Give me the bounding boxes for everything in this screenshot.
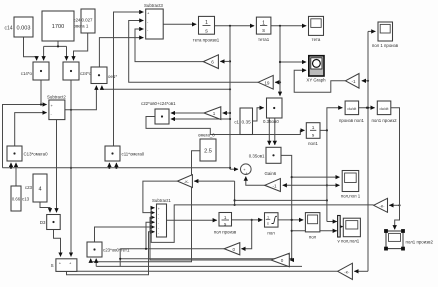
round sum block bbox=[241, 164, 252, 175]
wire const 2.5 omega_0 down to product c23 in1 bbox=[91, 151, 200, 262]
wire integrator pol1 out elbow up to du/dt1 bbox=[320, 108, 342, 132]
wire du/dt2 out down to selected scope bbox=[391, 108, 400, 230]
svg-text:0.027: 0.027 bbox=[82, 18, 94, 23]
wire gain 6 out feedback to Subtract3 in3 bbox=[135, 29, 203, 62]
wire c13 const to product C13*omega0 in2 bbox=[15, 163, 17, 186]
svg-text:c13: c13 bbox=[22, 197, 30, 202]
wire product D3 out to sum S in1 bbox=[54, 230, 61, 257]
wire product c23 out to Subtract1 in5 bbox=[95, 227, 155, 242]
vertical teta1 rail x=280 to product 0.35om0 top bbox=[279, 26, 281, 96]
wire gain 0 pol feedback to Subtract1 in3 bbox=[150, 217, 271, 260]
gain -K- left bbox=[177, 175, 192, 188]
wire gain 1 out to product c22 in1 bbox=[171, 112, 204, 114]
svg-text:0.003: 0.003 bbox=[17, 26, 31, 32]
wire Subtract2 out to product oe1 in1 bbox=[65, 86, 97, 111]
svg-text:c14: c14 bbox=[5, 26, 13, 32]
derivative du/dt pol1 proiz2 bbox=[371, 101, 397, 123]
wire product oe1 out to Subtract3 in4 bbox=[99, 38, 143, 67]
wire rail to gain 1 input bbox=[223, 112, 230, 114]
svg-text:19: 19 bbox=[265, 80, 270, 85]
derivative du/dt proizv pol1 bbox=[339, 101, 365, 123]
svg-text:0: 0 bbox=[281, 258, 284, 263]
svg-text:c11*омега0: c11*омега0 bbox=[122, 152, 145, 157]
svg-text:D3: D3 bbox=[40, 220, 46, 225]
wire product C13*omega0 to Subtract2 in2 bbox=[15, 113, 47, 146]
gain 19 bbox=[258, 75, 273, 89]
wire du/dt1 out to du/dt2 bbox=[359, 107, 375, 109]
XY Graph block bbox=[306, 56, 326, 83]
gain -1 upper bbox=[345, 74, 359, 89]
Subtract3 block bbox=[144, 3, 163, 41]
wire teta1 rail to gain 19 input bbox=[275, 81, 281, 83]
gain 1 bbox=[204, 107, 221, 120]
product c23*om0*teta1 bbox=[87, 242, 130, 257]
product c22*om0+c24*om1 bbox=[141, 101, 176, 124]
constant c14 value 0.003 bbox=[5, 17, 33, 37]
svg-text:s: s bbox=[262, 28, 265, 34]
wire product c22 out loop to integrator pol1 input bbox=[146, 117, 305, 135]
constant c23 value 4 bbox=[25, 174, 47, 202]
bus line B3 y=266.4 to product c23 in2 bbox=[96, 259, 302, 267]
integrator pol proizv bbox=[214, 213, 237, 235]
wire integrator pol out to scope pol bbox=[278, 219, 303, 221]
svg-text:-К-: -К- bbox=[380, 203, 386, 208]
sum S block bbox=[51, 259, 77, 272]
wire teta1 branch to XY Graph in1 bbox=[279, 61, 306, 63]
wire du/dt2 rail to gain -K-3 input bbox=[389, 204, 400, 206]
wire x=368 rail to gain -1 input bbox=[362, 80, 369, 82]
svg-text:Subtract1: Subtract1 bbox=[152, 198, 171, 203]
wire mux out to scope v pol,pol1 bbox=[340, 226, 343, 228]
svg-text:c23*ов0*тет1: c23*ов0*тет1 bbox=[103, 248, 130, 253]
svg-text:du/dt: du/dt bbox=[380, 106, 390, 111]
wire tap to scope pol,pol1 in1 bbox=[292, 176, 340, 178]
wire sum S out along bottom to Subtract1 in6 bbox=[67, 232, 155, 275]
wire product c11*omega0 out up to Subtract3 in1 bbox=[114, 12, 144, 146]
svg-text:s: s bbox=[205, 28, 208, 34]
svg-text:4: 4 bbox=[38, 187, 41, 193]
product oe1 bbox=[91, 67, 117, 84]
svg-text:пол1 произв2: пол1 произв2 bbox=[406, 240, 434, 245]
svg-text:пол произв: пол произв bbox=[214, 230, 237, 235]
wire 1700 const split to products bbox=[44, 41, 67, 60]
svg-text:c23: c23 bbox=[25, 185, 33, 190]
bus line B2 y=258.8 bbox=[119, 249, 293, 267]
wire rail to round sum left input bbox=[230, 168, 238, 170]
wire Subtract3 out to integrator teta-proizv1 bbox=[163, 23, 196, 25]
svg-text:0.35ов1: 0.35ов1 bbox=[249, 154, 265, 159]
wire gain -K- out to Subtract1 in2 bbox=[143, 181, 178, 213]
svg-text:1: 1 bbox=[224, 215, 227, 220]
svg-text:омега_0: омега_0 bbox=[198, 133, 215, 138]
wire y=185.3 to gain -1 Gain6 input and scope pol,pol1 in2 bbox=[283, 184, 340, 186]
wire gain Gain6 out to round sum bottom input bbox=[246, 177, 265, 186]
scope pol bbox=[305, 213, 320, 240]
svg-text:пол,пол 1: пол,пол 1 bbox=[341, 193, 361, 198]
svg-text:c1: c1 bbox=[234, 120, 239, 125]
svg-text:тета: тета bbox=[312, 37, 321, 42]
Subtract1 block bbox=[152, 198, 171, 237]
product c24*om bbox=[63, 62, 92, 80]
wire product c24*om out down to sum S in2 bbox=[70, 80, 72, 257]
wire tap to mux in2 bbox=[292, 230, 337, 232]
gain 6 bbox=[203, 55, 218, 69]
wire c14 const to product c14*om bbox=[24, 37, 37, 60]
bus line B1 y=248.8 gain 0 feedback to Subtract1 in4 bbox=[120, 222, 226, 250]
svg-text:0.66: 0.66 bbox=[12, 197, 21, 202]
svg-text:Gain6: Gain6 bbox=[265, 171, 277, 176]
svg-text:2.5: 2.5 bbox=[204, 149, 212, 155]
svg-text:0.35ов0: 0.35ов0 bbox=[263, 119, 279, 124]
wire product c14*om to Subtract2 in1, branch to left rail bbox=[3, 80, 47, 168]
integrator teta1 bbox=[256, 17, 271, 42]
svg-text:пол1 произ2: пол1 произ2 bbox=[371, 118, 397, 123]
wire rail to gain 6 input bbox=[220, 60, 230, 62]
wire gain -K-2 out along bottom bbox=[60, 270, 338, 272]
wire to gain 0 lower input bbox=[290, 259, 292, 260]
gain -K- 3 bbox=[374, 198, 388, 212]
svg-text:-К-: -К- bbox=[184, 179, 190, 184]
product C13*omega0 bbox=[7, 146, 48, 161]
svg-text:s: s bbox=[267, 222, 269, 226]
product 0.35om1 bbox=[249, 147, 281, 163]
product c14*om bbox=[21, 62, 49, 80]
svg-text:пол,пол1: пол,пол1 bbox=[341, 238, 360, 243]
vertical rail teta-deriv x=230 with taps bbox=[229, 26, 231, 169]
svg-text:тета произв1: тета произв1 bbox=[193, 38, 220, 43]
mux block bbox=[338, 216, 341, 238]
svg-text:-1: -1 bbox=[351, 79, 356, 84]
constant 1700 bbox=[42, 11, 74, 41]
wire integrator pol-proizv out junction down to gain 0 input bbox=[241, 219, 252, 249]
gain -K- 2 bbox=[338, 263, 353, 279]
wire Subtract2 bottom to product D3 in2 bbox=[56, 120, 58, 213]
wire integrator teta1 out to scope teta bbox=[271, 25, 306, 27]
omega bus y=167.8 with risers bbox=[3, 163, 231, 169]
svg-text:+: + bbox=[158, 207, 160, 211]
constant omega_0 2.5 bbox=[198, 133, 216, 162]
svg-text:6: 6 bbox=[211, 60, 214, 65]
svg-text:c22*ов0+c24*ов1: c22*ов0+c24*ов1 bbox=[141, 101, 176, 106]
product D3 bbox=[40, 215, 60, 230]
scope v pol,pol1 bbox=[338, 218, 361, 243]
svg-text:произв пол1: произв пол1 bbox=[339, 118, 365, 123]
saturated integrator pol bbox=[265, 213, 279, 236]
svg-text:пол 1 произв: пол 1 произв bbox=[372, 43, 399, 48]
svg-text:Subtract2: Subtract2 bbox=[47, 95, 66, 100]
wire gain 19 out feedback to Subtract3 in2 bbox=[129, 21, 258, 83]
Subtract2 block bbox=[47, 95, 66, 120]
gain Gain6 -1 bbox=[265, 171, 281, 192]
svg-text:1700: 1700 bbox=[52, 24, 64, 30]
svg-text:XY Graph: XY Graph bbox=[306, 78, 326, 83]
constant c13 value 0.66 bbox=[11, 186, 30, 211]
integrator teta proizv1 bbox=[193, 16, 220, 42]
gain 0 upper bbox=[224, 243, 240, 255]
svg-text:пол: пол bbox=[309, 234, 317, 239]
constant c24 value 0.027 omega1 bbox=[73, 9, 95, 33]
svg-text:-К-: -К- bbox=[344, 269, 350, 274]
wire c23 const 4 to product D3 in1 bbox=[40, 202, 50, 212]
scope teta bbox=[309, 16, 324, 42]
svg-text:пол1: пол1 bbox=[308, 141, 318, 146]
wire c1 const to product 0.35om0 input bbox=[252, 108, 264, 121]
wire teta-deriv rail to product oe1 in2 bbox=[102, 86, 231, 91]
wire to gain -K- input from x=234.6 bbox=[194, 181, 236, 206]
svg-text:C13*омега0: C13*омега0 bbox=[24, 152, 49, 157]
svg-text:пол: пол bbox=[267, 231, 275, 236]
vertical rail x=368 pol1-deriv bbox=[354, 31, 375, 271]
integrator pol1 bbox=[306, 123, 320, 146]
svg-text:овега 1: овега 1 bbox=[74, 24, 89, 29]
product 0.35om0 bbox=[263, 98, 282, 124]
svg-text:Subtract3: Subtract3 bbox=[144, 3, 163, 8]
svg-text:тета1: тета1 bbox=[258, 37, 270, 42]
svg-text:S: S bbox=[51, 263, 54, 268]
gain 0 lower bbox=[271, 253, 289, 266]
wire gain -K-3 out loop box to Subtract1 in1 bbox=[151, 205, 373, 243]
wire integrator pol-proizv out to integrator pol bbox=[232, 219, 263, 221]
svg-text:c24: c24 bbox=[73, 18, 81, 23]
svg-text:-1: -1 bbox=[272, 183, 277, 188]
selected scope pol1 proizv2 bbox=[384, 229, 433, 250]
svg-text:c14*о: c14*о bbox=[21, 71, 33, 76]
svg-text:c24*о: c24*о bbox=[80, 71, 92, 76]
wire product 0.35om1 out down vertical x=291.7 bbox=[281, 155, 293, 258]
wire rail to product c22 in2 bbox=[171, 118, 230, 120]
scope pol 1 proizv bbox=[372, 22, 399, 48]
svg-text:du/dt: du/dt bbox=[347, 106, 357, 111]
svg-text:1: 1 bbox=[213, 111, 216, 116]
scope pol,pol 1 bbox=[341, 171, 361, 199]
product c11*omega0 bbox=[105, 146, 145, 161]
wire c24 const to product c24*om bbox=[74, 33, 88, 60]
svg-text:0.35: 0.35 bbox=[242, 120, 252, 126]
wire Subtract1 out to integrator pol-proizv bbox=[167, 219, 217, 221]
svg-text:ое1*: ое1* bbox=[108, 74, 117, 79]
svg-text:1: 1 bbox=[267, 215, 269, 219]
vertical pol1 rail x=326.9 down to mux in1 bbox=[326, 130, 337, 221]
wire product 0.35om0 out to product 0.35om1 inputs bbox=[269, 118, 275, 145]
wire gain -1 out loop to XY Graph in2 bbox=[294, 70, 345, 92]
constant c1 0.35 bbox=[234, 108, 252, 135]
wire integrator teta-proizv1 out to integrator teta1 bbox=[215, 25, 255, 27]
svg-text:0: 0 bbox=[233, 247, 236, 252]
wire pol1 rail tap y=200.4 bbox=[235, 199, 328, 201]
